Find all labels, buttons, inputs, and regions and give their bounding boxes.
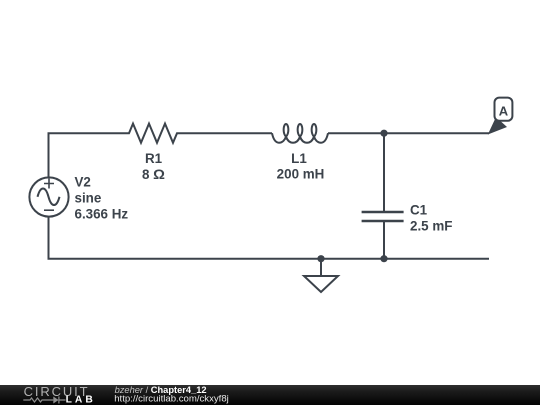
svg-text:6.366 Hz: 6.366 Hz — [75, 207, 129, 222]
svg-text:A: A — [499, 103, 509, 118]
svg-text:2.5 mF: 2.5 mF — [410, 219, 452, 234]
svg-text:http://circuitlab.com/ckxyf8j: http://circuitlab.com/ckxyf8j — [114, 393, 229, 404]
svg-text:C1: C1 — [410, 203, 428, 218]
svg-text:Ω: Ω — [153, 167, 165, 182]
svg-text:sine: sine — [75, 191, 102, 206]
svg-text:200 mH: 200 mH — [277, 167, 325, 182]
svg-text:LAB: LAB — [66, 394, 96, 405]
svg-text:R1: R1 — [145, 151, 163, 166]
svg-text:L1: L1 — [291, 151, 307, 166]
svg-text:V2: V2 — [75, 175, 91, 190]
svg-text:8: 8 — [142, 167, 150, 182]
